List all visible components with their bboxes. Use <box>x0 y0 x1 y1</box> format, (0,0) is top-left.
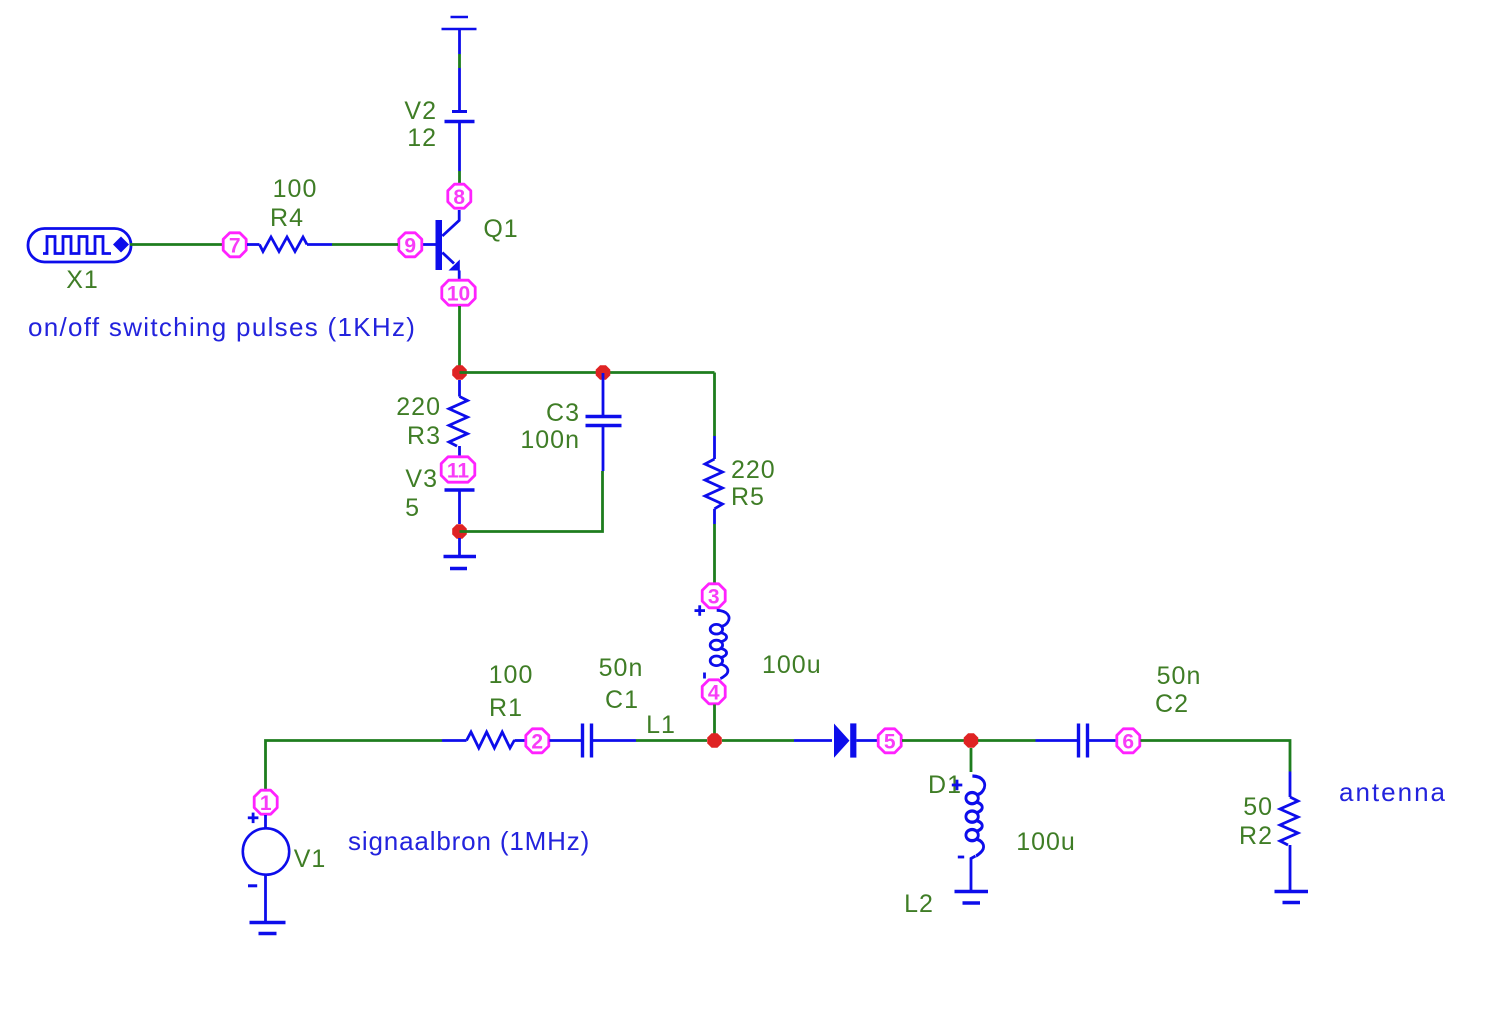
resistor R3 <box>449 380 468 456</box>
node 1 <box>254 790 277 815</box>
ground (below R2) <box>1275 892 1309 903</box>
svg-text:R1: R1 <box>489 694 523 722</box>
svg-text:6: 6 <box>1122 731 1134 754</box>
wire (junction A to junction B to R5 corner) <box>460 371 715 374</box>
svg-text:100u: 100u <box>762 651 822 679</box>
svg-text:Q1: Q1 <box>483 215 518 243</box>
node 11 <box>441 457 475 483</box>
svg-text:100u: 100u <box>1016 828 1076 856</box>
svg-text:antenna: antenna <box>1339 777 1447 807</box>
node 3 <box>702 584 725 609</box>
svg-text:220: 220 <box>396 393 441 421</box>
resistor R4 <box>247 237 332 252</box>
svg-text:R5: R5 <box>731 483 765 511</box>
svg-text:V2: V2 <box>404 97 437 125</box>
node 2 <box>526 729 549 754</box>
wire (node 4 to junction D) <box>713 705 716 735</box>
node 6 <box>1117 729 1140 754</box>
capacitor C3 <box>586 373 622 471</box>
inductor L1 <box>695 605 730 678</box>
svg-text:2: 2 <box>531 731 543 754</box>
source V1 <box>243 813 289 921</box>
svg-text:11: 11 <box>447 460 470 483</box>
svg-text:5: 5 <box>884 731 896 754</box>
svg-text:10: 10 <box>447 283 470 306</box>
svg-text:C3: C3 <box>546 399 580 427</box>
wire (node 6 to R2 corner) <box>1141 741 1291 772</box>
wire (V2 to node 8) <box>458 123 461 171</box>
capacitor C2 <box>1079 724 1116 758</box>
diode D1 <box>834 723 878 757</box>
svg-text:4: 4 <box>708 682 720 705</box>
resistor R5 <box>713 373 716 437</box>
svg-text:100n: 100n <box>520 426 580 454</box>
resistor R2 <box>1280 772 1298 891</box>
svg-text:L1: L1 <box>646 711 676 739</box>
svg-text:100: 100 <box>489 661 534 689</box>
battery V2 <box>445 112 475 122</box>
junction C <box>452 524 467 539</box>
ground (below L2) <box>955 892 989 904</box>
inductor L2 <box>952 776 985 890</box>
wire (V3 to junction C) <box>458 492 461 525</box>
svg-text:C2: C2 <box>1155 690 1189 718</box>
resistor R1 <box>442 732 525 748</box>
svg-text:1: 1 <box>260 792 272 815</box>
svg-text:C1: C1 <box>605 686 639 714</box>
wire (junction E to C2) <box>978 739 1036 742</box>
svg-text:12: 12 <box>407 124 437 152</box>
svg-text:8: 8 <box>453 186 465 209</box>
node 7 <box>223 233 246 258</box>
ground (top, flipped, above V2) <box>442 17 477 29</box>
svg-text:220: 220 <box>731 456 776 484</box>
svg-text:50n: 50n <box>1157 662 1202 690</box>
ground (below V3) <box>444 538 477 569</box>
junction E <box>964 733 979 748</box>
svg-text:7: 7 <box>229 235 241 258</box>
svg-text:R4: R4 <box>270 204 304 232</box>
svg-text:X1: X1 <box>66 266 99 294</box>
node 5 <box>878 729 901 754</box>
svg-text:3: 3 <box>708 586 720 609</box>
svg-text:V1: V1 <box>294 845 327 873</box>
ground (below V1) <box>250 923 286 934</box>
wire (junction C to C3 bottom) <box>460 471 603 532</box>
pulse source X1 <box>28 229 131 263</box>
wire (R4 to node 9) <box>332 243 398 246</box>
svg-text:signaalbron (1MHz): signaalbron (1MHz) <box>348 826 590 856</box>
wire (C1 to junction D) <box>636 739 707 742</box>
node 10 <box>442 280 475 305</box>
svg-text:R3: R3 <box>407 422 441 450</box>
wire (junction D to diode D1) <box>722 739 794 742</box>
battery V3 <box>445 488 475 492</box>
wire (junction E to L2) <box>970 748 973 772</box>
svg-text:on/off switching pulses (1KHz): on/off switching pulses (1KHz) <box>28 312 416 342</box>
junction B <box>596 365 611 380</box>
node 8 <box>448 184 471 209</box>
wire (node 10 to junction A) <box>458 306 461 366</box>
svg-text:100: 100 <box>273 175 318 203</box>
svg-text:L2: L2 <box>904 890 934 918</box>
wire (node 5 to junction E) <box>902 739 964 742</box>
transistor Q1 <box>422 210 460 280</box>
junction D <box>707 733 722 748</box>
svg-text:5: 5 <box>405 494 420 522</box>
node 4 <box>702 680 725 705</box>
capacitor C1 <box>550 724 637 758</box>
svg-text:R2: R2 <box>1239 822 1273 850</box>
svg-text:9: 9 <box>404 235 416 258</box>
wire (top ground to V2) <box>458 30 461 54</box>
svg-text:50n: 50n <box>599 654 644 682</box>
wire (X1 to node 7) <box>130 243 223 246</box>
wire (V1 corner to R1) <box>266 741 443 790</box>
junction A <box>452 365 467 380</box>
node 9 <box>399 233 422 258</box>
svg-text:V3: V3 <box>405 465 438 493</box>
svg-text:50: 50 <box>1243 793 1273 821</box>
